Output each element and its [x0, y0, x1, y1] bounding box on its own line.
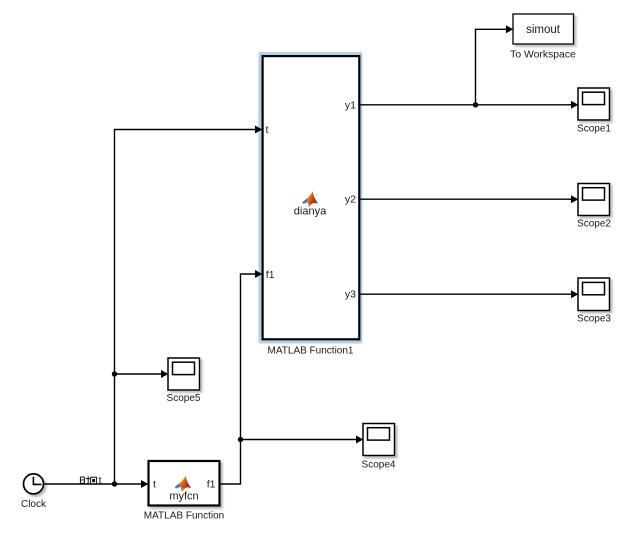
svg-text:y3: y3: [345, 289, 356, 301]
label Scope5: [167, 393, 201, 404]
svg-text:t: t: [153, 479, 156, 491]
port label t (myfcn in): [153, 479, 156, 491]
wire: myfcn f1 to MATLAB Function1 f1 port: [220, 270, 263, 484]
Scope2 block: [578, 184, 610, 216]
wire: branch to Scope5: [115, 370, 169, 378]
svg-text:MATLAB Function1: MATLAB Function1: [268, 346, 354, 357]
label Scope2: [577, 219, 611, 230]
wire: branch up to MATLAB Function1 t port: [115, 126, 263, 485]
Clock block: [24, 474, 44, 494]
svg-text:Scope5: Scope5: [167, 393, 201, 404]
junction: clock wire branch: [112, 481, 117, 486]
svg-text:t: t: [99, 475, 102, 487]
wire: y3 to Scope3: [360, 290, 579, 298]
junction: y1 branch to simout: [473, 102, 478, 107]
wire: y2 to Scope2: [360, 195, 579, 203]
port label f1 (in): [266, 269, 275, 281]
label dianya: [294, 206, 327, 218]
svg-text:Clock: Clock: [21, 499, 47, 510]
svg-text:dianya: dianya: [294, 206, 327, 218]
svg-text:Scope4: Scope4: [362, 460, 396, 471]
Scope3 block: [578, 278, 610, 311]
svg-text:t: t: [266, 124, 269, 136]
junction: t line branch to Scope5: [112, 371, 117, 376]
label Scope4: [362, 460, 396, 471]
Scope4 block: [363, 424, 395, 456]
svg-text:Scope2: Scope2: [577, 219, 611, 230]
To Workspace block (simout): [513, 14, 574, 44]
junction: f1 line branch to Scope4: [238, 437, 243, 442]
wire: Clock to junction and myfcn t: [43, 480, 148, 488]
port label t (in): [266, 124, 269, 136]
label MATLAB Function: [144, 511, 224, 522]
label Scope1: [577, 124, 611, 135]
svg-text:f1: f1: [207, 479, 216, 491]
svg-text:To Workspace: To Workspace: [510, 50, 576, 61]
Scope5 block: [168, 358, 200, 390]
svg-text:y1: y1: [345, 100, 356, 112]
svg-text:Scope3: Scope3: [577, 314, 611, 325]
wire: branch up to simout: [476, 25, 514, 105]
svg-text:MATLAB Function: MATLAB Function: [144, 511, 224, 522]
svg-text:f1: f1: [266, 269, 275, 281]
svg-text:simout: simout: [526, 24, 561, 36]
MATLAB Function1 block selection halo: [258, 52, 362, 344]
Scope1 block: [578, 88, 610, 120]
label Clock: [21, 499, 47, 510]
MATLAB Function block (myfcn) body: [149, 461, 220, 506]
label myfcn: [169, 491, 198, 503]
signal label 时间t: [80, 476, 96, 484]
port label y2 (out): [345, 194, 356, 206]
label MATLAB Function1: [268, 346, 354, 357]
svg-text:myfcn: myfcn: [169, 491, 198, 503]
label Scope3: [577, 314, 611, 325]
wire: y1 to Scope1: [360, 101, 579, 109]
MATLAB logo U2 (myfcn): [175, 476, 192, 491]
port label y1 (out): [345, 100, 356, 112]
svg-text:Scope1: Scope1: [577, 124, 611, 135]
port label y3 (out): [345, 289, 356, 301]
svg-text:y2: y2: [345, 194, 356, 206]
MATLAB logo U1 (dianya): [302, 191, 318, 206]
wire: branch to Scope4: [241, 436, 364, 444]
MATLAB Function1 block body: [263, 56, 360, 339]
label To Workspace: [510, 50, 576, 61]
port label f1 (myfcn out): [207, 479, 216, 491]
signal label t: [99, 475, 102, 487]
